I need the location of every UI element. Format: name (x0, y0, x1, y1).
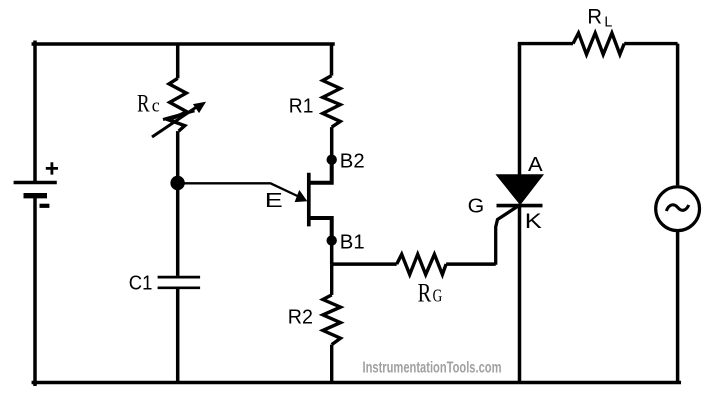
transistor UJT emitter arrowhead (295, 190, 308, 202)
wire top-right left segment (520, 44, 574, 46)
svg-text:A: A (528, 154, 543, 176)
svg-text:G: G (433, 285, 443, 305)
resistor Rc (variable) (152, 78, 205, 137)
svg-text:R1: R1 (289, 95, 314, 117)
node B2 (327, 155, 337, 165)
wire left rail lower (33, 197, 37, 384)
SCR anode triangle (498, 175, 543, 203)
wire bottom horizontal (33, 381, 679, 385)
node E junction (170, 176, 184, 190)
SCR cathode bar (497, 204, 543, 208)
svg-text:B2: B2 (340, 151, 365, 173)
wire C1 to bottom (176, 289, 180, 383)
wire R1 to B2 node (330, 127, 334, 157)
wire top-left horizontal (33, 42, 333, 46)
wire B1 node to junction (330, 241, 334, 265)
wire AC rail upper (676, 44, 680, 186)
wire RG to gate (446, 262, 496, 266)
wire junction to RG (332, 262, 397, 266)
svg-text:E: E (265, 190, 283, 212)
resistor RG (397, 254, 446, 274)
wire AC rail lower (676, 232, 680, 383)
resistor R1 (323, 76, 341, 128)
capacitor C1 (158, 277, 201, 288)
transistor UJT base bar (307, 173, 311, 227)
svg-text:R: R (587, 6, 602, 29)
transistor UJT base-one lead (310, 218, 332, 241)
SCR rail lower (518, 206, 522, 383)
resistor R2 (323, 264, 341, 383)
AC source (656, 187, 700, 231)
node B1 (327, 235, 337, 245)
wire left rail upper (33, 42, 37, 181)
wire gate lead (496, 205, 520, 265)
battery V1 (14, 162, 58, 206)
svg-text:R: R (137, 91, 150, 118)
wire Rc branch top (176, 44, 180, 78)
transistor UJT base-two lead (310, 160, 332, 183)
wire Rc to C1 (176, 131, 180, 276)
SCR rail upper (518, 44, 522, 176)
svg-text:InstrumentationTools.com: InstrumentationTools.com (363, 359, 502, 376)
svg-text:G: G (468, 196, 485, 218)
AC sine symbol (666, 205, 689, 211)
svg-text:K: K (525, 210, 542, 233)
svg-text:c: c (152, 96, 160, 117)
svg-text:R2: R2 (288, 307, 313, 329)
transistor UJT emitter wire (184, 183, 299, 196)
svg-text:R: R (418, 278, 432, 307)
wire R1 branch top (330, 44, 334, 76)
svg-text:L: L (604, 14, 612, 31)
svg-text:C1: C1 (129, 272, 153, 294)
resistor RL (573, 33, 624, 54)
svg-text:B1: B1 (340, 231, 365, 253)
wire top-right right segment (624, 42, 677, 45)
